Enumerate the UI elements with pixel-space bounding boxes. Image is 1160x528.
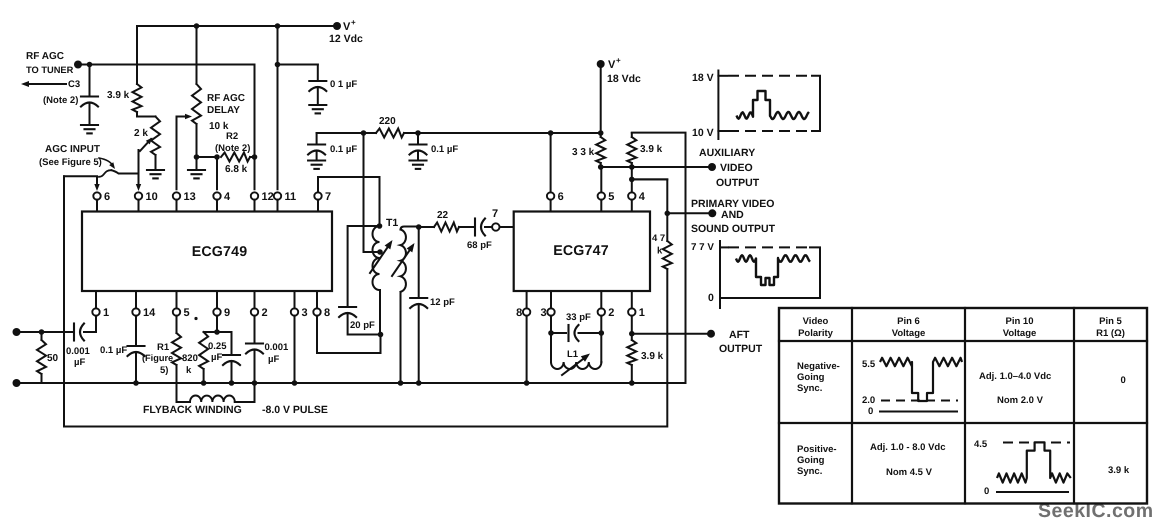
wire pin2 down: [600, 316, 602, 333]
tick 10V: [718, 130, 727, 132]
IC ECG749: [82, 212, 332, 292]
pin 5 ECG747 top circle: [598, 192, 605, 199]
junction 20pF/primary bottom: [378, 332, 384, 338]
waveform2 video signal trace: [736, 255, 810, 285]
junction 6.8k right / pin 12 line: [252, 154, 258, 160]
svg-text:Sync.: Sync.: [797, 466, 822, 477]
wire input bottom: [17, 382, 42, 384]
wire pin5 up: [600, 167, 602, 192]
wire C3 top lead: [89, 65, 91, 97]
resistor 3.3k: [596, 137, 605, 163]
svg-text:3 3 k: 3 3 k: [572, 147, 595, 158]
wire 68pF to pin7: [485, 226, 492, 228]
table row separator: [779, 422, 1147, 424]
pin 10 ECG749 top circle: [135, 192, 142, 199]
wire pin14 to 0.1uF: [135, 316, 137, 346]
svg-text:7: 7: [492, 208, 498, 220]
wire 12pF to bus: [418, 305, 420, 384]
T1 secondary adjust arrow: [392, 246, 413, 276]
resistor 820k: [199, 332, 208, 369]
transformer T1 secondary winding: [401, 227, 419, 230]
capacitor 68pF: [474, 219, 476, 236]
svg-text:C3: C3: [68, 79, 80, 90]
wire input top: [17, 331, 75, 333]
stray dot artifact: [194, 317, 197, 320]
wire 10k wiper to pin 13: [176, 117, 178, 190]
10k wiper arm: [177, 116, 188, 118]
svg-text:3: 3: [302, 307, 308, 319]
svg-text:Pin 5: Pin 5: [1099, 316, 1122, 327]
wire 0.1uF bottom lead: [317, 88, 319, 106]
wire 22 to 68pF: [459, 226, 474, 228]
svg-text:RF AGC: RF AGC: [26, 51, 64, 62]
capacitor C3: [81, 95, 98, 97]
transformer T1 primary winding: [373, 226, 380, 290]
svg-text:20 pF: 20 pF: [350, 320, 375, 331]
svg-text:8: 8: [324, 307, 330, 319]
svg-text:Sync.: Sync.: [797, 383, 822, 394]
table column line 1: [851, 308, 853, 504]
svg-text:+: +: [351, 18, 356, 27]
wire C3 bottom lead: [89, 103, 91, 125]
2k wiper arrowhead: [146, 138, 153, 145]
pin 6 ECG749 top circle: [93, 192, 100, 199]
wire to top 0.1uF: [278, 64, 318, 66]
waveform1 axis: [717, 71, 719, 140]
pin 9 ECG749 bottom circle: [213, 308, 220, 315]
capacitor 0.1uF top right: [309, 80, 326, 82]
svg-text:AFT: AFT: [729, 329, 750, 341]
wire pin3 down: [550, 316, 552, 333]
wire 33pF left: [551, 332, 566, 334]
junction pin8/bus: [524, 380, 530, 386]
junction T1 primary tap: [377, 249, 383, 255]
svg-text:(Figure: (Figure: [142, 353, 173, 363]
svg-text:Pin 6: Pin 6: [897, 316, 920, 327]
pin 8 ECG747 bottom circle: [523, 308, 530, 315]
svg-text:7: 7: [325, 191, 331, 203]
svg-text:µF: µF: [74, 357, 85, 368]
svg-text:ECG747: ECG747: [553, 243, 609, 259]
pin 14 ECG749 bottom circle: [132, 308, 139, 315]
junction 10k/6.8k/ground: [194, 154, 200, 160]
svg-text:L1: L1: [567, 349, 579, 360]
svg-text:Positive-: Positive-: [797, 444, 837, 455]
wire 0.1uF to bus: [135, 353, 137, 384]
wire pin6 to rail: [550, 133, 552, 192]
svg-text:µF: µF: [268, 354, 279, 365]
svg-text:Adj. 1.0–4.0 Vdc: Adj. 1.0–4.0 Vdc: [979, 371, 1051, 382]
wire RC top: [204, 331, 232, 333]
wire pin7 to T1 primary top: [318, 177, 380, 223]
wire outer loop left/bottom to 4.7k: [64, 176, 667, 426]
wire auxiliary video output line: [601, 166, 712, 168]
wire cap to pin 1: [84, 316, 96, 332]
wire AFT output line: [632, 333, 711, 335]
pointer squiggle from label: [99, 158, 113, 166]
wire 6.8k right lead: [250, 156, 255, 158]
junction rail/pin6: [548, 130, 554, 136]
svg-text:+: +: [616, 56, 621, 65]
wire 10k top lead: [196, 26, 198, 84]
terminal input bottom: [13, 379, 21, 387]
svg-text:OUTPUT: OUTPUT: [716, 177, 760, 189]
svg-text:5: 5: [184, 307, 190, 319]
svg-text:k: k: [657, 246, 663, 257]
flyback winding inductor: [190, 396, 235, 402]
svg-text:0.25: 0.25: [208, 341, 227, 352]
resistor 3.9k left: [133, 84, 142, 112]
svg-text:14: 14: [143, 307, 156, 319]
wire L1 left lead: [550, 333, 552, 362]
svg-text:9: 9: [224, 307, 230, 319]
wire AGC input to pin 6: [64, 176, 97, 187]
svg-text:DELAY: DELAY: [207, 105, 240, 116]
svg-text:Nom 2.0 V: Nom 2.0 V: [997, 395, 1044, 406]
wire T1 tap to rail: [364, 133, 381, 252]
capacitor 0.1uF mid-left: [308, 143, 325, 145]
wire 3.3k leads: [600, 133, 602, 167]
junction 0.1uF branch: [275, 62, 281, 68]
svg-text:3.9 k: 3.9 k: [641, 351, 664, 362]
table header separator: [779, 340, 1147, 342]
svg-text:(See Figure 5): (See Figure 5): [39, 157, 102, 168]
wire to ground: [417, 151, 419, 161]
svg-text:2 k: 2 k: [134, 128, 148, 139]
svg-text:OUTPUT: OUTPUT: [719, 343, 763, 355]
wire secondary bottom to bus: [400, 292, 402, 383]
junction 50 ohm top: [39, 329, 45, 335]
wire pin3 to bus: [294, 316, 296, 383]
wire 10k bottom lead: [196, 124, 198, 157]
pin 6 ECG747 top circle: [547, 192, 554, 199]
wire pin1 down: [631, 316, 633, 334]
svg-text:10 V: 10 V: [692, 127, 714, 139]
wire T1 top to 20pF: [348, 226, 380, 307]
waveform1 video signal trace: [737, 91, 810, 119]
svg-text:RF AGC: RF AGC: [207, 93, 245, 104]
svg-text:(Note 2): (Note 2): [43, 95, 78, 106]
pin 1 ECG747 bottom circle: [628, 308, 635, 315]
svg-text:Polarity: Polarity: [798, 328, 834, 339]
svg-text:3.9 k: 3.9 k: [1108, 465, 1130, 476]
svg-text:2: 2: [262, 307, 268, 319]
table waveform negative-going: [880, 358, 962, 401]
wire 820k to bus: [203, 369, 205, 383]
table column line 2: [964, 308, 966, 504]
table column line 3: [1073, 308, 1075, 504]
svg-text:AND: AND: [721, 209, 744, 221]
svg-text:12: 12: [262, 191, 274, 203]
svg-text:Negative-: Negative-: [797, 361, 840, 372]
arrow head to tuner: [21, 81, 29, 87]
wire right 0.1uF lead: [417, 133, 419, 145]
svg-text:R2: R2: [226, 131, 238, 142]
terminal primary video output: [708, 209, 716, 217]
svg-text:VIDEO: VIDEO: [720, 162, 753, 174]
pin 11 ECG749 top circle: [274, 192, 281, 199]
svg-text:0.001: 0.001: [66, 346, 90, 357]
capacitor 0.25uF: [223, 354, 240, 356]
pin 7 ECG749 top circle: [314, 192, 321, 199]
svg-text:0: 0: [1121, 375, 1126, 386]
svg-text:R1 (Ω): R1 (Ω): [1096, 328, 1125, 339]
wire 50 ohm leads: [41, 332, 43, 383]
svg-text:50: 50: [47, 353, 59, 364]
terminal auxiliary video output: [708, 163, 716, 171]
arrowhead into pin 10: [136, 184, 141, 191]
junction 820k/bus: [201, 380, 207, 386]
svg-text:11: 11: [285, 191, 297, 203]
svg-text:2: 2: [608, 307, 614, 319]
table waveform positive-going: [997, 442, 1071, 482]
svg-text:V: V: [608, 59, 616, 71]
wire winding right to bus: [235, 383, 255, 402]
svg-text:2.0: 2.0: [862, 395, 875, 406]
pin 1 ECG749 bottom circle: [92, 308, 99, 315]
table waveform2 zero line: [997, 491, 1068, 493]
resistor R2 6.8k: [221, 153, 250, 162]
svg-text:FLYBACK WINDING: FLYBACK WINDING: [143, 404, 242, 416]
terminal AFT output: [707, 330, 715, 338]
svg-text:18 Vdc: 18 Vdc: [607, 73, 641, 85]
wire 3.9k to pin4 junction: [631, 167, 633, 179]
svg-text:6.8 k: 6.8 k: [225, 164, 248, 175]
svg-text:(Note 2): (Note 2): [215, 143, 250, 154]
tick 7.7V: [720, 246, 728, 248]
wire 3.9k lower leads: [631, 334, 633, 383]
wire to ground: [196, 157, 198, 170]
capacitor 0.001uF pin2: [246, 342, 263, 344]
svg-text:0: 0: [984, 486, 989, 497]
tick 18V: [718, 75, 727, 77]
svg-text:Pin 10: Pin 10: [1006, 316, 1034, 327]
junction dot rail/10k: [194, 23, 200, 29]
pin 3 ECG747 bottom circle: [547, 308, 554, 315]
wire 4.7k top to pin 4 wire: [632, 179, 668, 241]
wire pin8 to T1 primary bottom: [317, 316, 381, 353]
wire 10k to 6.8k: [197, 156, 218, 158]
svg-text:Voltage: Voltage: [1003, 328, 1037, 339]
svg-text:18 V: 18 V: [692, 72, 714, 84]
wire primary bottom to pin8 line: [380, 335, 382, 354]
ground below mid-left 0.1uF: [308, 159, 325, 161]
svg-text:4 7: 4 7: [652, 233, 665, 244]
svg-text:5): 5): [160, 365, 168, 376]
wire rail left segment: [317, 132, 376, 134]
junction pin2/33pF/L1: [599, 330, 605, 336]
wire 3.9k to 2k: [137, 112, 156, 117]
svg-text:68 pF: 68 pF: [467, 240, 492, 251]
junction 0.1uF/bus: [133, 380, 139, 386]
wire 12pF top lead: [418, 227, 420, 298]
pin 4 ECG749 top circle: [213, 192, 220, 199]
wire pin4 junction to feedback line: [632, 178, 668, 180]
wire primary video output line: [667, 212, 712, 214]
arrowhead into pin 6: [94, 184, 99, 191]
svg-text:0.1 µF: 0.1 µF: [100, 345, 127, 356]
ground below 10k: [188, 169, 205, 171]
pin 3 ECG749 bottom circle: [291, 308, 298, 315]
junction pin9 RC: [214, 329, 220, 335]
ground below C3: [81, 124, 98, 126]
wire RF AGC line to pin 12: [78, 65, 255, 190]
wire 0.001uF to bus: [254, 350, 256, 383]
junction secondary/bus: [398, 380, 404, 386]
junction T1 primary top: [377, 223, 383, 229]
wire L1 right lead: [600, 333, 602, 362]
wire pin7 stub to IC: [500, 226, 514, 228]
svg-text:13: 13: [184, 191, 196, 203]
pin 8 ECG749 bottom circle: [313, 308, 320, 315]
pin 12 ECG749 top circle: [251, 192, 258, 199]
wire junction to pin 4: [216, 157, 218, 189]
inductor L1: [551, 362, 601, 369]
waveform2 bottom line: [720, 297, 820, 299]
ground below 2k: [147, 169, 164, 171]
svg-text:1: 1: [639, 307, 645, 319]
junction 3.3k bottom/pin5/aux: [598, 164, 604, 170]
L1 adjust arrow: [562, 356, 587, 375]
pin 7 ECG747 left circle: [492, 223, 499, 230]
junction 12pF/bus: [416, 380, 422, 386]
pin 5 ECG749 bottom circle: [173, 308, 180, 315]
junction 0.25uF/bus: [229, 380, 235, 386]
waveform2 right edge: [810, 247, 820, 298]
svg-text:4: 4: [639, 191, 646, 203]
resistor 4.7k: [663, 241, 672, 269]
svg-text:22: 22: [437, 210, 449, 221]
2k wiper arm: [140, 139, 151, 151]
svg-text:3: 3: [541, 307, 547, 319]
svg-text:0 1 µF: 0 1 µF: [330, 79, 357, 90]
resistor R1: [172, 333, 181, 365]
wire left 0.1uF lead: [316, 133, 318, 145]
svg-text:0: 0: [868, 406, 873, 417]
junction 6.8k left: [214, 154, 220, 160]
wire 3.9k top lead: [136, 26, 138, 84]
svg-text:T1: T1: [386, 217, 398, 229]
wire to ground: [316, 151, 318, 161]
junction dot rail/pin11 line: [275, 23, 281, 29]
wire 2k wiper to pin 10: [138, 150, 140, 187]
capacitor 0.001uF input: [73, 324, 75, 341]
wire 0.1uF top lead: [317, 65, 319, 82]
junction pin3/33pF/L1: [548, 330, 554, 336]
svg-text:6: 6: [104, 191, 110, 203]
resistor 22: [434, 223, 459, 232]
junction 3.9k/bus: [629, 380, 635, 386]
wire ground bus and right riser to 3.9k top: [42, 133, 686, 383]
svg-text:12 Vdc: 12 Vdc: [329, 33, 363, 45]
svg-text:8: 8: [516, 307, 522, 319]
junction 3.9k bottom/aux line: [629, 164, 635, 170]
svg-text:AUXILIARY: AUXILIARY: [699, 147, 755, 159]
capacitor 12pF: [410, 297, 427, 299]
wire rail right segment: [404, 132, 601, 134]
arrow to tuner wire: [28, 83, 66, 85]
svg-text:Going: Going: [797, 455, 825, 466]
capacitor 0.1uF pin14: [128, 345, 145, 347]
wire 2k to ground: [155, 155, 157, 170]
svg-text:10: 10: [146, 191, 158, 203]
10k wiper arrowhead: [185, 114, 192, 119]
svg-text:µF: µF: [211, 352, 222, 363]
pin 2 ECG747 bottom circle: [598, 308, 605, 315]
pin 2 ECG749 bottom circle: [251, 308, 258, 315]
potentiometer RF AGC DELAY 10k: [192, 84, 201, 124]
wire break squiggle: [99, 170, 112, 177]
terminal V+ 12Vdc: [333, 22, 341, 30]
wire to 22: [419, 226, 434, 228]
svg-text:1: 1: [103, 307, 109, 319]
junction primary video tap: [665, 211, 671, 217]
svg-text:0.1 µF: 0.1 µF: [431, 144, 458, 155]
wire pin9 down: [216, 316, 218, 332]
V+ 12V top rail: [137, 25, 337, 27]
pin 4 ECG747 top circle: [628, 192, 635, 199]
svg-text:AGC INPUT: AGC INPUT: [45, 144, 100, 155]
resistor 220: [376, 129, 404, 138]
pin 13 ECG749 top circle: [173, 192, 180, 199]
wire pin5 to R1: [176, 316, 178, 333]
junction pin1/AFT/3.9k: [629, 331, 635, 337]
capacitor 33pF: [567, 325, 569, 341]
junction pin4/feedback: [629, 177, 635, 183]
junction rail/T1 tap line: [361, 130, 367, 136]
svg-text:Video: Video: [803, 316, 829, 327]
svg-text:0.001: 0.001: [265, 342, 289, 353]
resistor 3.9k lower: [627, 340, 636, 365]
svg-text:Nom 4.5 V: Nom 4.5 V: [886, 467, 933, 478]
svg-text:820: 820: [182, 353, 198, 364]
IC ECG747: [514, 212, 650, 292]
pointer arrowhead: [109, 162, 115, 169]
svg-text:Voltage: Voltage: [892, 328, 926, 339]
waveform2 axis: [719, 241, 721, 308]
terminal V+ 18Vdc: [597, 60, 605, 68]
wire pin 11 line from rail: [277, 26, 279, 189]
svg-text:Adj. 1.0 - 8.0 Vdc: Adj. 1.0 - 8.0 Vdc: [870, 442, 946, 453]
wire 3.9k leads: [631, 133, 633, 167]
svg-text:12 pF: 12 pF: [430, 297, 455, 308]
potentiometer 2k: [151, 117, 160, 156]
svg-text:0.1 µF: 0.1 µF: [330, 144, 357, 155]
wire to 0.25uF: [231, 332, 233, 355]
junction rail/18V/3.3k: [598, 130, 604, 136]
svg-text:3.9 k: 3.9 k: [640, 144, 663, 155]
svg-text:5.5: 5.5: [862, 359, 876, 370]
junction C3 tap: [87, 62, 93, 68]
wire 0.25uF to bus: [231, 362, 233, 384]
wire 18V to rail: [600, 64, 602, 133]
T1 primary adjust arrow: [370, 243, 391, 273]
svg-text:V: V: [343, 21, 351, 33]
terminal RF AGC: [74, 61, 82, 69]
svg-text:7 7 V: 7 7 V: [691, 242, 714, 253]
wire break to pin 10 line: [112, 170, 139, 173]
wire pin4 up: [631, 179, 633, 192]
wire pin2 to 0.001uF: [254, 316, 256, 344]
svg-text:4.5: 4.5: [974, 439, 988, 450]
junction rail/0.1uF: [415, 130, 421, 136]
resistor 50: [37, 340, 46, 374]
table waveform1 zero line: [880, 411, 957, 413]
svg-text:4: 4: [224, 191, 231, 203]
ground below mid-right 0.1uF: [410, 159, 427, 161]
svg-text:6: 6: [558, 191, 564, 203]
svg-text:5: 5: [608, 191, 614, 203]
